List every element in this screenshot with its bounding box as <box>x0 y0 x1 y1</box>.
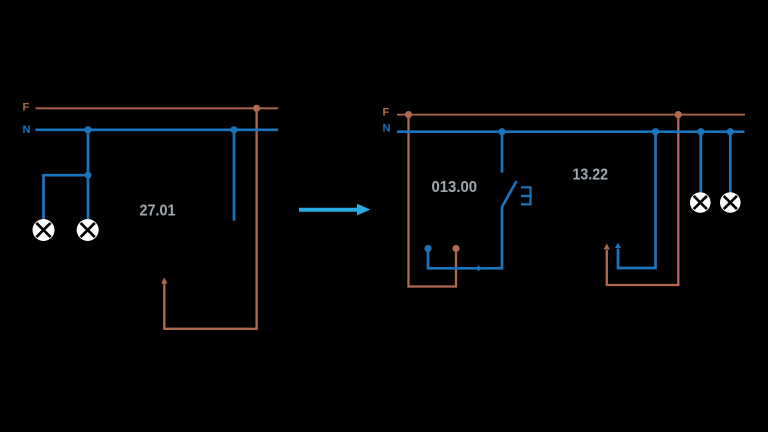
svg-text:13.22: 13.22 <box>573 167 609 184</box>
svg-text:N: N <box>23 124 31 136</box>
svg-text:013.00: 013.00 <box>432 179 478 196</box>
svg-text:27.01: 27.01 <box>140 203 176 220</box>
svg-text:F: F <box>383 106 390 118</box>
svg-text:N: N <box>383 123 391 135</box>
svg-text:F: F <box>23 102 30 114</box>
